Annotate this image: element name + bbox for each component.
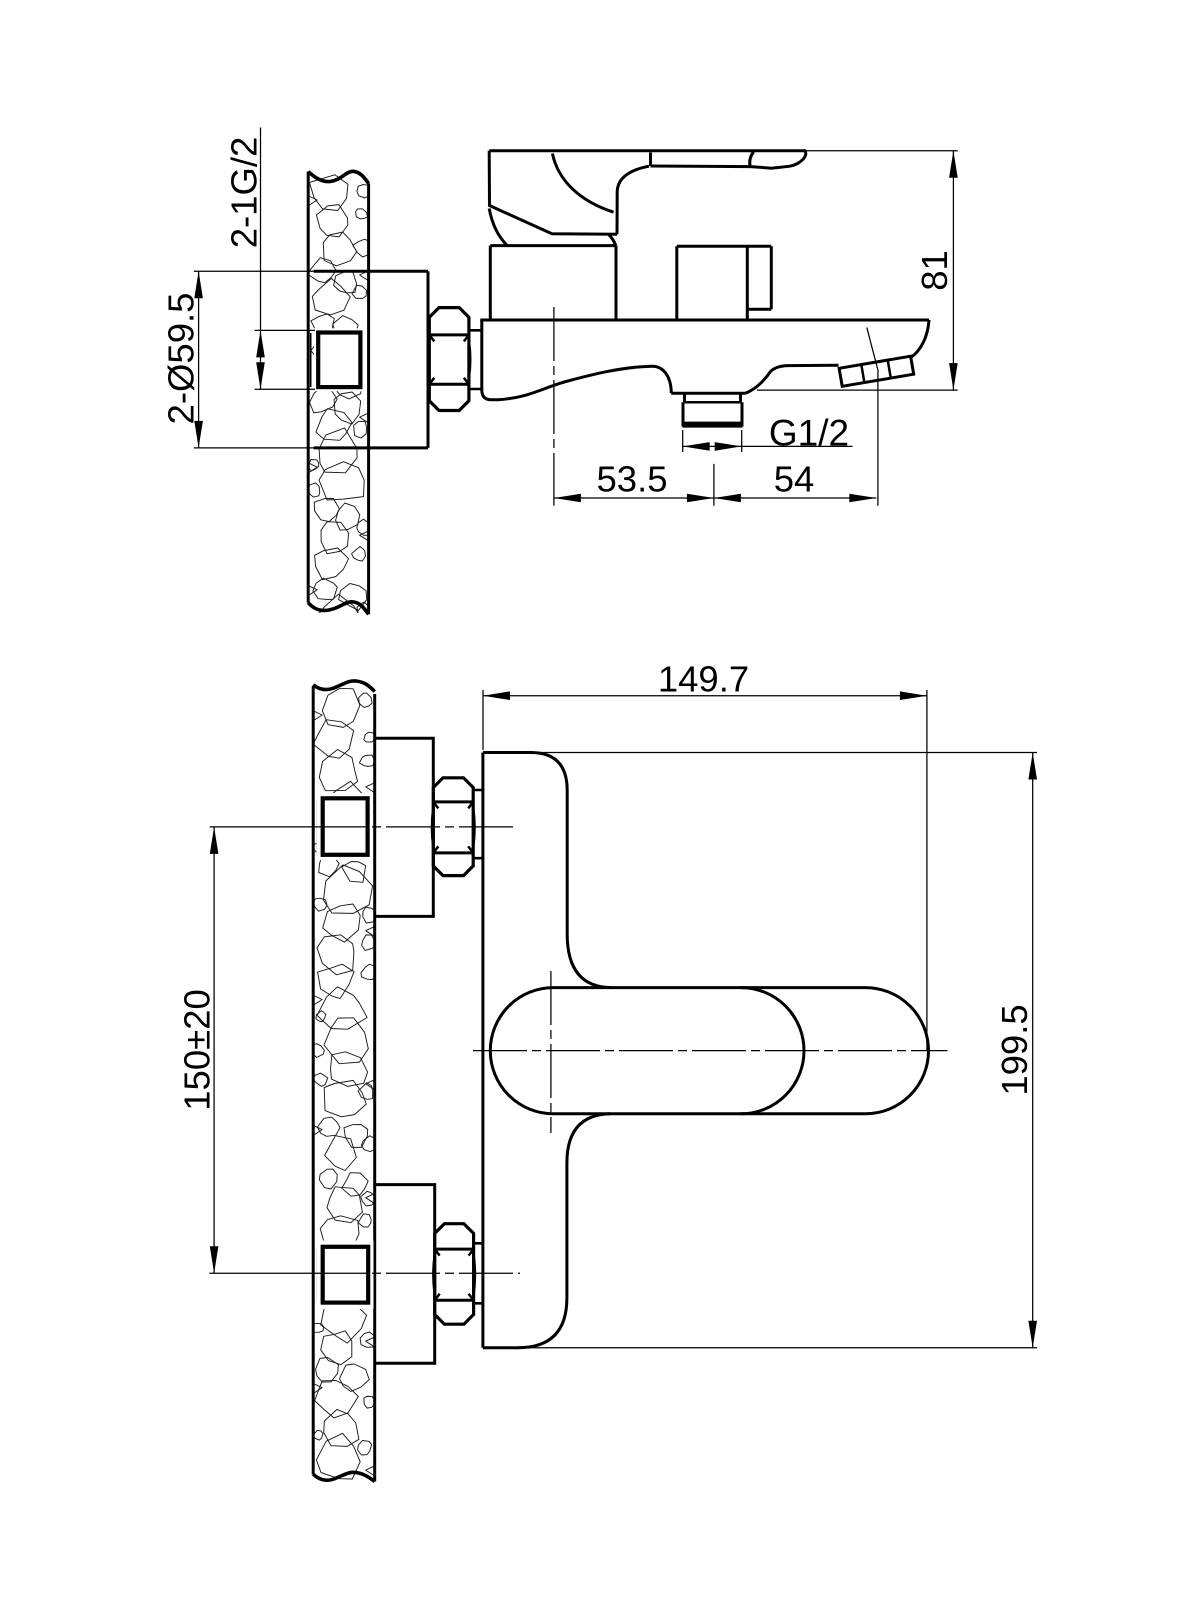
lever handle (top view side) bbox=[489, 151, 805, 168]
dimension 149.7 bbox=[483, 690, 927, 1051]
valve body block (top view) bbox=[490, 246, 616, 319]
slot center extension for 54 bbox=[867, 328, 879, 506]
dimension line 53.5 / 54 bbox=[554, 497, 876, 499]
mounting plate (top view) bbox=[314, 271, 428, 448]
dimension G1/2 bbox=[683, 430, 853, 452]
dimension 150±20 bbox=[213, 827, 215, 1273]
handle stadium outline (bottom view) bbox=[490, 988, 928, 1114]
spout underside right of outlet bbox=[746, 365, 839, 393]
wall section hatch (top view) bbox=[307, 175, 372, 643]
spout body (top view): top edge bbox=[480, 319, 929, 322]
svg-text:53.5: 53.5 bbox=[596, 459, 667, 500]
svg-text:54: 54 bbox=[774, 459, 815, 500]
valve axis centerline (bottom view) bbox=[550, 971, 552, 1133]
horizontal centerline upper pipe (bottom view) bbox=[210, 826, 313, 828]
upper hex nut (bottom view) bbox=[433, 778, 473, 876]
horizontal centerline lower pipe (bottom view) bbox=[209, 1272, 313, 1274]
spout underside hump corner bbox=[653, 366, 672, 393]
dimension 199.5 bbox=[519, 753, 1037, 1348]
pipe square cross-section (top view) bbox=[314, 328, 365, 391]
svg-text:149.7: 149.7 bbox=[658, 659, 749, 700]
body plate left edge (bottom view) bbox=[481, 753, 484, 1348]
lower pipe square (bottom view) bbox=[317, 1241, 374, 1310]
tip slot plate bbox=[839, 356, 914, 386]
wall section edges (bottom view) bbox=[313, 686, 375, 1481]
svg-text:199.5: 199.5 bbox=[994, 1004, 1035, 1095]
handle axis centerline (bottom view) bbox=[473, 1050, 948, 1052]
centerline of valve axis (top view) bbox=[553, 307, 555, 506]
svg-text:G1/2: G1/2 bbox=[769, 413, 849, 454]
wall section edges (top view) bbox=[308, 172, 368, 615]
svg-text:2-Ø59.5: 2-Ø59.5 bbox=[161, 293, 202, 425]
wall section hatch (bottom view) bbox=[309, 688, 377, 1479]
upper pipe end (bottom view) bbox=[316, 800, 318, 853]
spout left edge and underside S-curve bbox=[482, 320, 653, 400]
dimension 2-1G/2 bbox=[255, 128, 316, 390]
threaded stub between nut and body (top view) bbox=[469, 330, 482, 389]
svg-text:81: 81 bbox=[914, 250, 955, 291]
diverter knob (top view) bbox=[677, 246, 772, 319]
upper mounting block (bottom view) bbox=[375, 738, 434, 916]
body plate top edge and corner (bottom view) bbox=[483, 753, 612, 988]
dimension 81 bbox=[757, 151, 958, 390]
body plate bottom edge (bottom view) bbox=[483, 1346, 519, 1349]
lower mounting block (bottom view) bbox=[375, 1185, 435, 1364]
svg-text:2-1G/2: 2-1G/2 bbox=[224, 137, 265, 249]
wall pipe end (top view) bbox=[310, 333, 312, 387]
hex nut (top view) bbox=[429, 308, 469, 411]
upper pipe square (bottom view) bbox=[317, 793, 374, 860]
extension for 53.5/54 center bbox=[713, 464, 715, 506]
outlet flange bbox=[671, 393, 745, 402]
lower hex nut (bottom view) bbox=[435, 1224, 474, 1325]
lower pipe end (bottom view) bbox=[316, 1250, 318, 1300]
body plate lower S (bottom view) bbox=[518, 1114, 610, 1348]
stubs between nuts and body (bottom view) bbox=[473, 790, 483, 1303]
svg-text:150±20: 150±20 bbox=[177, 989, 218, 1111]
dimension 2-Ø59.5 bbox=[194, 271, 316, 448]
spout tip curve bbox=[911, 320, 930, 358]
outlet G1/2 thread cylinder bbox=[683, 402, 742, 426]
handle inner end-cap arc (bottom view) bbox=[741, 988, 804, 1114]
